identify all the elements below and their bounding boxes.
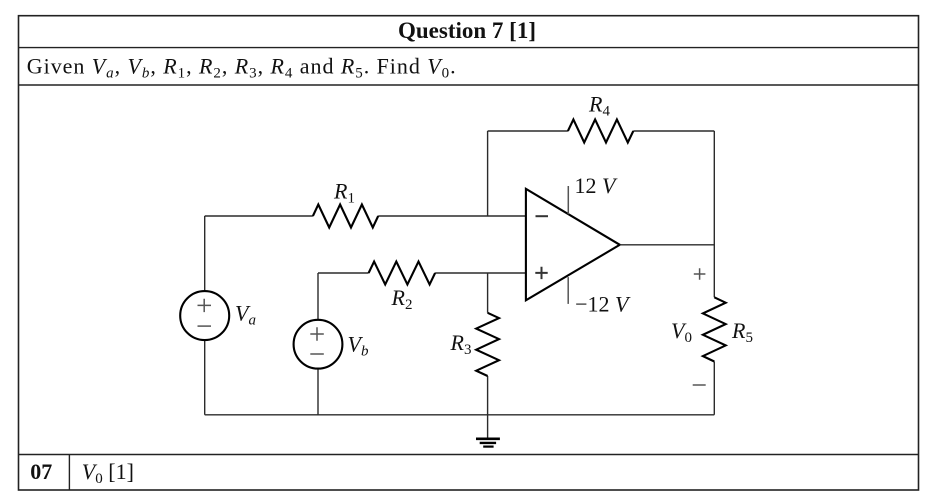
answer cell "07" (30, 459, 52, 484)
op-amp U1 (526, 189, 620, 300)
label Vb (348, 332, 369, 360)
svg-text:R2: R2 (391, 285, 413, 313)
svg-text:12 V: 12 V (575, 173, 619, 198)
op-amp inverting input minus sign (536, 215, 549, 217)
svg-text:Given Va, Vb, R1, R2, R3, R4 a: Given Va, Vb, R1, R2, R3, R4 and R5. Fin… (27, 53, 457, 81)
supply label 12 V (575, 173, 619, 198)
resistor R4 (568, 120, 633, 143)
output polarity plus sign (694, 268, 706, 280)
label R5 (731, 318, 753, 346)
svg-text:R3: R3 (450, 330, 472, 358)
wire: output from op-amp to right rail (620, 244, 715, 246)
wire: non-inverting input line from Vb top to op-amp (R2 branch) (318, 272, 526, 274)
svg-text:V0 [1]: V0 [1] (82, 459, 134, 487)
wire: inverting input line from node A to op-amp (R1 branch) (205, 215, 526, 217)
label R3 (450, 330, 472, 358)
Va plus sign (198, 299, 212, 312)
label R2 (391, 285, 413, 313)
header title "Question 7 [1]" (398, 18, 536, 43)
wire: left vertical branch through Va (204, 216, 206, 415)
Vb plus sign (310, 327, 324, 340)
wire: top feedback line through R4 (488, 130, 715, 132)
wire: right vertical rail through R5 (713, 131, 715, 415)
svg-text:R4: R4 (588, 92, 610, 120)
table row divider 3 (19, 454, 919, 456)
resistor R1 (313, 205, 378, 228)
prompt text "Given Va, Vb, R1, R2, R3, R4 and R5. Find V0." (27, 53, 457, 81)
answer cell "V0 [1]" (82, 459, 134, 487)
voltage source Va (180, 291, 229, 340)
ground (487, 415, 489, 438)
svg-text:−12 V: −12 V (575, 292, 631, 317)
resistor R3 (476, 313, 499, 376)
op-amp positive supply pin (567, 186, 569, 214)
op-amp non-inverting input plus sign (535, 267, 547, 279)
resistor R5 (703, 297, 726, 361)
table row divider 2 (19, 84, 919, 86)
Vb minus sign (310, 353, 324, 355)
label R4 (588, 92, 610, 120)
wire: R3 branch from non-inverting node down to rail (487, 273, 489, 415)
label R1 (333, 179, 355, 207)
svg-text:V0: V0 (671, 318, 692, 346)
svg-text:R5: R5 (731, 318, 753, 346)
svg-text:Question 7 [1]: Question 7 [1] (398, 18, 536, 43)
svg-text:Va: Va (235, 301, 256, 329)
wire: feedback vertical from inverting node up to R4 line (487, 131, 489, 216)
answer row column divider (68, 455, 70, 491)
svg-text:Vb: Vb (348, 332, 369, 360)
wire: Vb vertical branch (317, 273, 319, 415)
Va minus sign (198, 325, 212, 327)
table row divider 1 (19, 47, 919, 49)
svg-text:07: 07 (30, 459, 52, 484)
label Va (235, 301, 256, 329)
op-amp negative supply pin (567, 277, 569, 304)
voltage source Vb (294, 320, 343, 369)
output polarity minus sign (693, 384, 706, 386)
svg-text:R1: R1 (333, 179, 355, 207)
supply label -12 V (575, 292, 631, 317)
resistor R2 (369, 262, 436, 285)
label V0 across R5 (671, 318, 692, 346)
wire: bottom ground rail (205, 414, 715, 416)
